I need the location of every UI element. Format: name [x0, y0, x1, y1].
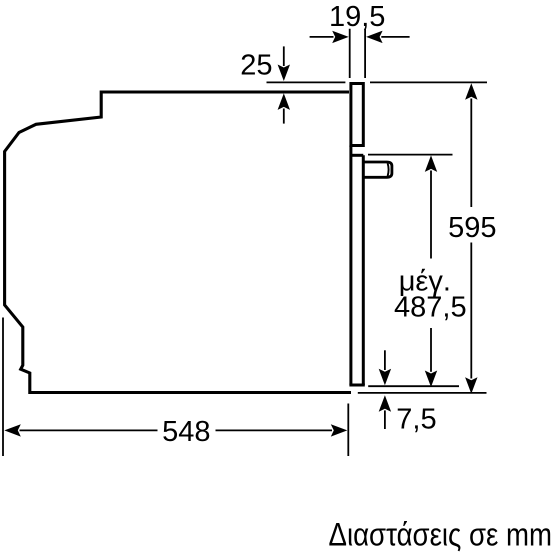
- extension line 548 left: [2, 318, 4, 457]
- svg-text:25: 25: [240, 50, 272, 82]
- door top jog: [351, 154, 363, 157]
- extension line fascia top left: [267, 81, 346, 83]
- svg-text:19,5: 19,5: [329, 1, 385, 33]
- dimension 487,5 bottom arrow: [425, 328, 437, 387]
- dimension 19,5 left arrow: [310, 31, 349, 43]
- extension line 548 right: [347, 404, 349, 457]
- dimension 548 left arrow: [4, 424, 157, 436]
- extension line body bottom: [358, 392, 487, 394]
- dimension 19,5 right arrow: [366, 31, 410, 43]
- dimension 487,5 top arrow: [425, 155, 437, 258]
- door back line: [349, 146, 352, 386]
- dimension 25 lower arrow: [278, 93, 290, 123]
- door bottom cap: [349, 384, 364, 387]
- dimension 548 right arrow: [216, 424, 348, 436]
- dimension 595 top arrow: [465, 83, 477, 207]
- dimension 7,5 upper arrow: [379, 350, 391, 385]
- door front line: [362, 155, 365, 385]
- svg-text:Διαστάσεις σε mm: Διαστάσεις σε mm: [329, 517, 553, 553]
- svg-text:548: 548: [162, 416, 210, 448]
- svg-text:595: 595: [448, 212, 496, 244]
- extension line fascia top right: [370, 81, 487, 83]
- extension line door bottom: [368, 385, 459, 387]
- extension lines 19,5: [350, 29, 365, 78]
- svg-text:487,5: 487,5: [394, 291, 467, 323]
- dimension 7,5 lower arrow: [379, 395, 391, 429]
- door handle: [363, 162, 392, 177]
- dimension 595 bottom arrow: [465, 243, 477, 394]
- control panel fascia: [351, 84, 363, 146]
- svg-text:7,5: 7,5: [396, 404, 436, 436]
- dimension 25 upper arrow: [278, 46, 290, 81]
- extension line door top: [368, 154, 453, 156]
- oven body outline: [5, 92, 351, 393]
- handle end cap line: [388, 163, 389, 176]
